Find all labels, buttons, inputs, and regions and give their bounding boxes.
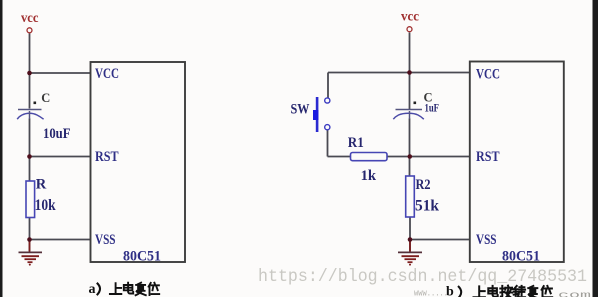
svg-text:VCC: VCC [476, 67, 500, 83]
svg-text:RST: RST [476, 149, 500, 165]
svg-text:10k: 10k [35, 197, 56, 214]
svg-text:VSS: VSS [95, 232, 116, 248]
svg-text:www.....: www..... [414, 289, 448, 297]
svg-text:com: com [558, 291, 591, 297]
svg-text:vcc: vcc [21, 11, 39, 26]
svg-text:R2: R2 [416, 177, 431, 193]
svg-text:1k: 1k [361, 168, 377, 184]
svg-text:80C51: 80C51 [123, 248, 161, 264]
svg-text:10uF: 10uF [43, 126, 71, 142]
svg-text:VSS: VSS [476, 232, 497, 248]
svg-text:51k: 51k [415, 198, 439, 215]
svg-text:1uF: 1uF [425, 101, 440, 115]
svg-text:b: b [446, 285, 454, 297]
svg-text:VCC: VCC [95, 66, 119, 82]
svg-text:RST: RST [95, 149, 119, 165]
svg-text:a: a [89, 282, 96, 297]
svg-text:R: R [36, 176, 47, 192]
svg-text:vcc: vcc [401, 10, 419, 25]
svg-text:C: C [41, 91, 50, 105]
svg-text:80C51: 80C51 [502, 248, 540, 264]
svg-text:SW: SW [291, 102, 310, 118]
svg-text:https://blog.csdn.net/qq_27485: https://blog.csdn.net/qq_27485531 [258, 267, 587, 287]
svg-text:R1: R1 [348, 135, 364, 151]
